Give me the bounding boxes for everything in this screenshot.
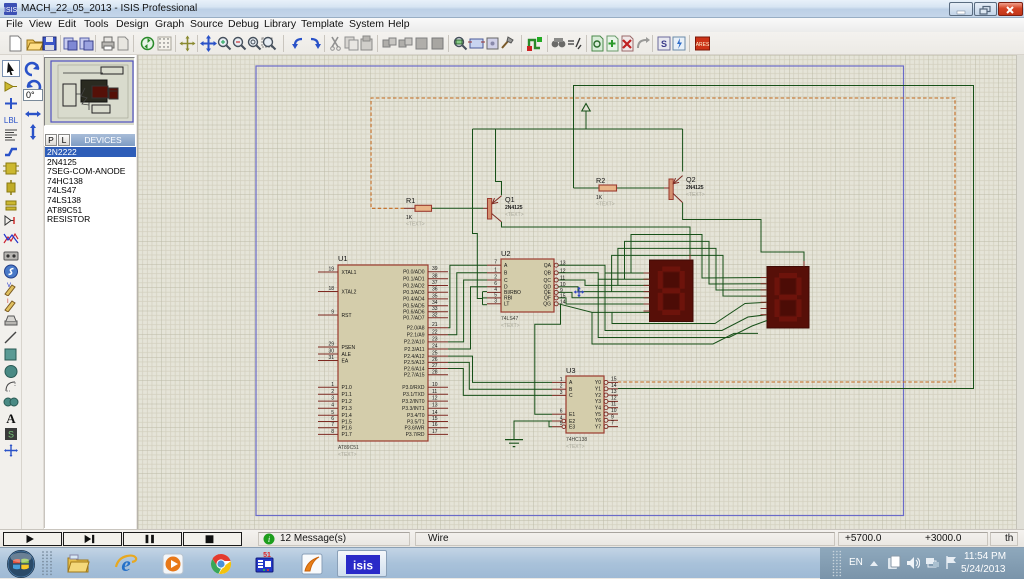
svg-text:<TEXT>: <TEXT> [501,323,520,329]
svg-text:U2: U2 [501,249,511,258]
svg-text:1K: 1K [406,215,413,221]
svg-text:P0.1/AD1: P0.1/AD1 [403,277,425,283]
svg-text:Y5: Y5 [595,412,601,418]
svg-text:Y3: Y3 [595,399,601,405]
svg-text:AT89C51: AT89C51 [338,445,359,451]
svg-text:P1.4: P1.4 [342,413,353,419]
svg-text:11: 11 [611,402,616,408]
svg-text:P3.4/T0: P3.4/T0 [407,413,425,419]
svg-text:19: 19 [328,267,334,273]
svg-text:P3.3/INT1: P3.3/INT1 [402,406,425,412]
svg-text:PSEN: PSEN [342,345,356,351]
svg-text:QG: QG [543,302,551,308]
svg-text:23: 23 [432,336,438,342]
svg-text:2N4125: 2N4125 [686,185,704,191]
resistor R2 [574,187,600,189]
svg-text:QB: QB [544,271,552,277]
svg-text:P3.6/WR: P3.6/WR [404,426,424,432]
svg-text:P2.7/A15: P2.7/A15 [404,373,425,379]
svg-text:74HC138: 74HC138 [566,437,587,443]
svg-text:XTAL1: XTAL1 [342,270,357,276]
svg-text:QC: QC [544,278,552,284]
svg-text:2: 2 [331,389,334,395]
wire R2-Y1 loop [574,86,974,389]
svg-text:QA: QA [544,263,552,269]
svg-text:P1.3: P1.3 [342,406,353,412]
svg-text:<TEXT>: <TEXT> [566,444,585,450]
svg-text:3: 3 [494,298,497,304]
svg-text:XTAL2: XTAL2 [342,289,357,295]
svg-text:P1.1: P1.1 [342,392,353,398]
svg-text:5: 5 [331,410,334,416]
svg-text:P2.0/A8: P2.0/A8 [407,326,425,332]
svg-text:LBL: LBL [4,116,19,125]
svg-text:1: 1 [331,382,334,388]
wire QF-disp1 [559,298,650,304]
svg-text:38: 38 [432,273,438,279]
svg-text:30: 30 [328,349,334,355]
svg-text:<TEXT>: <TEXT> [505,212,524,218]
wire nest low3 [598,279,767,337]
wire QA-disp1 [559,265,650,273]
svg-text:ARES: ARES [696,42,710,48]
svg-text:3: 3 [331,396,334,402]
transistor Q2 [669,179,673,200]
svg-text:I: I [7,299,9,305]
svg-text:P0.4/AD4: P0.4/AD4 [403,297,425,303]
svg-text:15: 15 [611,376,617,382]
IC U2 74LS47 [501,259,554,312]
transistor Q1 [488,199,492,220]
svg-text:7: 7 [611,421,614,427]
svg-text:29: 29 [328,342,334,348]
svg-text:ALE: ALE [342,352,352,358]
sheet border [256,66,904,516]
svg-text:12: 12 [432,396,438,402]
svg-text:15: 15 [432,416,438,422]
svg-text:EA: EA [342,358,349,364]
svg-text:51: 51 [263,552,271,559]
svg-text:P2.4/A12: P2.4/A12 [404,354,425,360]
wire nest up3 [618,248,767,290]
svg-text:18: 18 [328,286,334,292]
wire Q2 collector to display2 [683,203,804,267]
wire P2.6-U3C [448,369,552,396]
svg-text:P1.6: P1.6 [342,426,353,432]
svg-text:ISIS: ISIS [4,7,17,14]
svg-text:P0.2/AD2: P0.2/AD2 [403,283,425,289]
svg-text:P2.5/A13: P2.5/A13 [404,360,425,366]
svg-text:LT: LT [504,302,509,308]
svg-text:S: S [8,430,14,440]
display2 pin stubs [761,277,768,279]
svg-text:36: 36 [432,287,438,293]
svg-text:<TEXT>: <TEXT> [596,202,615,208]
svg-text:P3.0/RXD: P3.0/RXD [402,385,425,391]
cursor crosshair [574,287,585,298]
7seg display2 [767,267,809,329]
svg-text:74LS47: 74LS47 [501,316,518,322]
svg-text:2: 2 [560,384,563,390]
wire nest up4 [612,255,767,296]
svg-text:1: 1 [560,377,563,383]
power vcc arrow [473,128,683,130]
svg-text:<TEXT>: <TEXT> [338,452,357,458]
svg-text:33: 33 [432,306,438,312]
svg-text:P0.7/AD7: P0.7/AD7 [403,316,425,322]
wire P2.5-U3B [448,362,552,389]
svg-text:1K: 1K [596,195,603,201]
svg-text:P2.3/A11: P2.3/A11 [404,347,424,353]
svg-text:P1.2: P1.2 [342,399,353,405]
svg-text:U1: U1 [338,254,348,263]
svg-text:P1.7: P1.7 [342,432,353,438]
svg-text:S: S [661,39,667,49]
svg-text:Y4: Y4 [595,406,601,412]
svg-text:13: 13 [560,261,566,267]
wire gnd to E2/E3 [514,421,552,440]
wire P2.4-U3A [448,356,552,382]
svg-text:32: 32 [432,312,438,318]
wire P2.3-D [448,287,487,349]
svg-text:P3.2/INT0: P3.2/INT0 [402,399,425,405]
svg-text:P2.6/A14: P2.6/A14 [404,366,425,372]
svg-text:isis: isis [353,559,373,573]
svg-text:1: 1 [494,267,497,273]
wire P2.1-B [448,273,487,335]
wire rail to U2 pins 4,5,3 [473,129,483,299]
svg-text:P2.1/A9: P2.1/A9 [407,333,425,339]
svg-text:P0.3/AD3: P0.3/AD3 [403,290,425,296]
svg-text:10: 10 [432,382,438,388]
svg-text:4: 4 [331,403,334,409]
svg-text:2N4125: 2N4125 [505,205,523,211]
IC U3 74HC138 [566,376,604,433]
display1 pin stubs [644,272,650,274]
svg-text:11: 11 [560,276,565,282]
svg-text:Y6: Y6 [595,418,601,424]
resistor R1 [404,207,415,209]
svg-text:11: 11 [432,389,437,395]
svg-text:P3.7/RD: P3.7/RD [406,432,425,438]
7seg display1 [650,260,694,322]
svg-text:17: 17 [432,429,438,435]
svg-text:P3.1/TXD: P3.1/TXD [403,392,425,398]
svg-text:P0.6/AD6: P0.6/AD6 [403,310,425,316]
svg-text:Q1: Q1 [505,195,515,204]
svg-text:U3: U3 [566,366,576,375]
svg-text:7: 7 [331,422,334,428]
svg-text:A: A [6,411,16,425]
svg-text:Q2: Q2 [686,175,696,184]
svg-text:P3.5/T1: P3.5/T1 [407,419,425,425]
wire QG-disp1 [559,304,650,313]
svg-text:14: 14 [611,383,617,389]
svg-text:24: 24 [432,344,438,350]
wire nest up1 [631,235,767,279]
svg-text:31: 31 [328,355,334,361]
wire QG-E1 [535,304,561,414]
svg-text:26: 26 [432,357,438,363]
svg-text:R2: R2 [596,176,605,185]
wire dashed Y0-R1 net [371,98,955,382]
svg-text:12: 12 [611,395,617,401]
svg-text:Y0: Y0 [595,380,601,386]
wire QB-disp1 [559,273,650,279]
wire rail to Q1 emitter [496,129,502,195]
svg-text:P1.0: P1.0 [342,385,353,391]
svg-text:7: 7 [494,260,497,266]
svg-text:35: 35 [432,293,438,299]
wire nest low1 [612,302,767,323]
svg-text:16: 16 [432,422,438,428]
svg-text:28: 28 [432,369,438,375]
svg-text:14: 14 [432,410,438,416]
svg-text:25: 25 [432,351,438,357]
svg-text:22: 22 [432,329,438,335]
svg-text:13: 13 [611,389,617,395]
wire nest low4 [592,312,758,344]
svg-text:Y7: Y7 [595,424,601,430]
wire Q1 collector to display1 [502,222,691,260]
display2 common stub [803,261,805,267]
svg-text:C: C [504,278,508,284]
svg-text:8: 8 [331,429,334,435]
svg-text:27: 27 [432,363,438,369]
svg-text:RST: RST [342,313,352,319]
svg-text:9: 9 [611,414,614,420]
svg-text:Y1: Y1 [595,387,601,393]
svg-text:Y2: Y2 [595,393,601,399]
svg-text:2: 2 [494,275,497,281]
svg-text:10: 10 [611,408,617,414]
svg-text:13: 13 [432,403,438,409]
svg-text:R1: R1 [406,196,415,205]
wire P2.2-C [448,280,487,342]
svg-text:37: 37 [432,280,438,286]
wire QC-disp1 [559,280,650,285]
svg-text:P2.2/A10: P2.2/A10 [404,340,425,346]
svg-text:3: 3 [560,390,563,396]
wire nest low2 [605,273,767,331]
svg-text:6: 6 [331,416,334,422]
svg-text:V: V [7,283,11,289]
svg-text:21: 21 [432,322,438,328]
wire QD-disp1 [559,287,650,292]
svg-text:<TEXT>: <TEXT> [406,222,425,228]
svg-text:9: 9 [331,310,334,316]
ground [505,440,523,447]
svg-text:<TEXT>: <TEXT> [686,192,705,198]
svg-text:P0.0/AD0: P0.0/AD0 [403,270,425,276]
svg-text:E1: E1 [569,412,575,418]
wire rail to Q2 emitter [682,129,684,172]
svg-text:12: 12 [560,268,566,274]
svg-text:6: 6 [560,409,563,415]
wire QE-disp1 [559,292,650,297]
svg-text:E3: E3 [569,425,575,431]
wire P2.0-A [448,265,487,328]
display1 common stub [689,255,691,261]
IC U1 AT89C51 [338,265,428,441]
wire nest up2 [625,241,768,284]
svg-text:39: 39 [432,266,438,272]
svg-text:P1.5: P1.5 [342,419,353,425]
svg-text:C: C [569,393,573,399]
